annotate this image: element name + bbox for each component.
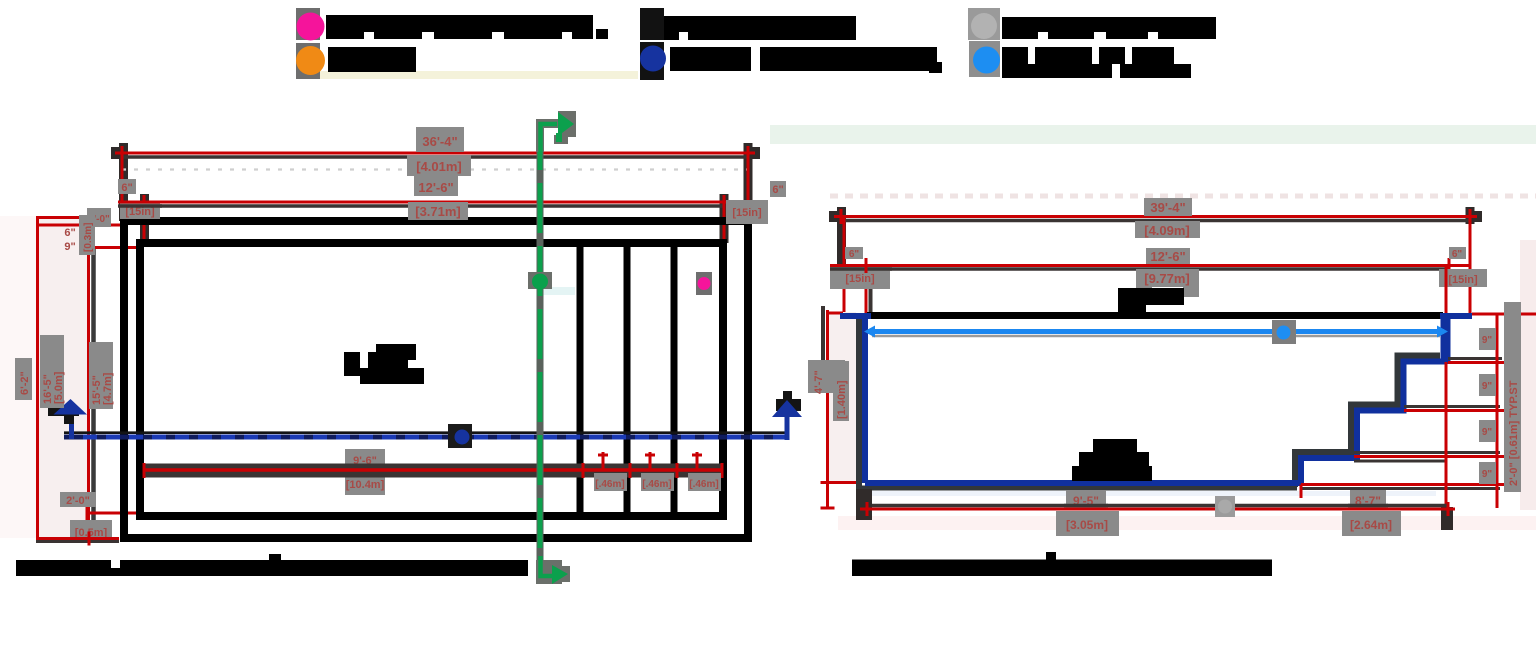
svg-text:4'-7": 4'-7" [813, 370, 825, 394]
section: dim line 1 black end bars [829, 207, 1482, 267]
svg-text:[.46m]: [.46m] [595, 479, 624, 490]
plan: pool inner wall rectangle [140, 243, 723, 516]
svg-text:6": 6" [121, 182, 132, 194]
plan: pipe right arrow (navy) [772, 400, 802, 417]
plan: section marker top (gray back) [536, 111, 576, 152]
plan: top center dim label 2 [407, 155, 471, 176]
plan: pink box red border left [36, 216, 39, 538]
plan: navy marker dot [455, 430, 470, 445]
plan: blue pipe black top line [64, 431, 786, 434]
section: red+black ext vertical left x=866 [869, 266, 873, 313]
svg-text:39'-4": 39'-4" [1150, 200, 1185, 215]
overpaint: dimension lines drawn across label boxes [68, 202, 1388, 546]
plan: section marker top (green) [541, 112, 575, 152]
section: deck level red line right [1472, 313, 1536, 316]
plan: green section line (green dashes) [538, 120, 543, 580]
section: gray marker square [1215, 496, 1235, 517]
section: left red bottom line [828, 481, 859, 484]
svg-text:[1.40m]: [1.40m] [836, 380, 848, 419]
legend swatch box 3 (black, col2 row1) [640, 8, 664, 40]
plan: left rotated label B [40, 335, 65, 408]
plan: dimension line 1 (top, dark shadow) [122, 155, 748, 159]
section: caption bar (redacted) [852, 552, 1272, 576]
legend dot: orange [296, 46, 325, 75]
plan: dimension line 2 (red) [144, 201, 724, 204]
plan: green dot [532, 274, 548, 290]
legend swatch box 5 (gray, col3 row1) [968, 8, 1000, 40]
plan: pink box red border right [87, 225, 90, 538]
plan: pink box red border bottom (with dark shadow) [36, 540, 119, 543]
legend swatch box 4 (black, behind navy dot) [640, 42, 664, 80]
section: waterline (light blue) [868, 329, 1444, 334]
section: dimension line 2 (dark shadow) [866, 267, 1449, 271]
legend text row1 col2 (redacted) [664, 16, 856, 40]
svg-text:9": 9" [64, 241, 75, 253]
plan: dark extension line (left of pool) [91, 247, 96, 540]
section: bottom dim line (dark) [867, 504, 1448, 508]
section: faint pink dash row above dim1 [830, 194, 1536, 199]
plan: dimension line 2 (dark shadow) [144, 204, 724, 208]
svg-text:9": 9" [1482, 335, 1493, 346]
plan: section marker bottom (green) [541, 556, 569, 584]
section: left rotated label [808, 360, 849, 421]
svg-text:[0.3m]: [0.3m] [83, 223, 94, 252]
plan: pool name label (redacted black) [344, 344, 424, 384]
plan: top left small label 6" [118, 179, 136, 194]
section: left crosses [821, 483, 835, 509]
legend swatch box 6 (gray, behind light-blue dot) [969, 41, 1000, 77]
plan: pipe right arrow (black back) [776, 391, 801, 411]
section: red vertical x=1446 (two segments, hidden behind beam) [1445, 265, 1448, 313]
plan: small red dim line y=513 [87, 512, 143, 515]
plan: pink box red border top [36, 216, 88, 219]
plan: lane line 1 [577, 247, 584, 512]
plan pink box bottom line across [0.5m] label [68, 540, 116, 543]
legend text row2 col1 (redacted) [328, 47, 416, 72]
section: waterline left arrow [864, 326, 875, 338]
section: left red dim vertical [826, 310, 829, 508]
svg-text:6": 6" [1452, 249, 1463, 260]
section: light blue dot [1277, 326, 1291, 340]
svg-text:[10.4m]: [10.4m] [346, 479, 385, 491]
svg-text:[9.77m]: [9.77m] [1144, 271, 1190, 286]
svg-text:9": 9" [1482, 427, 1493, 438]
svg-text:12'-6": 12'-6" [418, 180, 453, 195]
section: right rotated column label [1504, 302, 1521, 492]
section: top center label 3 [1146, 248, 1190, 264]
plan: pipe left riser [69, 414, 74, 439]
plan: pink dimension box fill [37, 216, 88, 538]
plan: green section line (gray base) [537, 120, 544, 580]
plan: interior dim crosses [144, 463, 722, 478]
svg-text:[4.7m]: [4.7m] [102, 372, 114, 405]
plan: top right label [15in] [726, 200, 768, 224]
svg-text:9": 9" [1482, 469, 1493, 480]
section: step dim lines right [1301, 359, 1502, 489]
section: left label 6" [845, 247, 863, 260]
section: right label [15in] [1439, 269, 1487, 287]
plan: small red dim line y=225 [36, 224, 122, 227]
section: left label [15in] [830, 265, 890, 289]
section: left dark ext line [821, 306, 825, 393]
plan dim2 across [15in] label [118, 204, 162, 208]
section: bottom dim crosses [860, 485, 1455, 517]
plan: green dot marker (gray back) [528, 272, 552, 289]
plan: interior dim label [345, 449, 385, 495]
svg-text:6": 6" [64, 227, 75, 239]
svg-text:[15in]: [15in] [732, 207, 762, 219]
section: bottom dim line (red) [867, 508, 1448, 511]
section: gray marker dot [1218, 500, 1232, 514]
section: deck top line [867, 312, 1443, 319]
plan: red extension vertical x=748 (dim1 to wall) [747, 153, 750, 221]
legend text row1 col3 (redacted) [1002, 17, 1216, 39]
plan: pool outer wall rectangle [124, 221, 748, 538]
plan: dim2 cross ticks [137, 195, 731, 209]
plan: pink dot marker (gray back) [696, 272, 712, 295]
plan: lane line 3 [671, 247, 678, 512]
svg-text:2'-0" [0.61m] TYP.ST: 2'-0" [0.61m] TYP.ST [1508, 380, 1520, 486]
plan: cross at (88,225) [87, 218, 90, 232]
section: deck label (redacted black) [1118, 288, 1184, 312]
section: red vertical x=1497 [1496, 314, 1499, 508]
section: red ext vertical right x=1470 [1469, 217, 1472, 317]
svg-text:[15in]: [15in] [845, 273, 875, 285]
section: bottom label right [1350, 490, 1386, 509]
svg-text:[.46m]: [.46m] [689, 479, 718, 490]
section: waterline gray shadow [872, 335, 1440, 338]
legend dot: gray [971, 13, 997, 39]
section: bottom dim end bars [856, 489, 1453, 530]
svg-text:[4.01m]: [4.01m] [416, 159, 462, 174]
section: bottom label left [1066, 490, 1106, 509]
plan: small lane tick dims [598, 452, 702, 470]
plan: top center dim label 4 [408, 202, 468, 220]
plan: blue pipe dashes [83, 435, 786, 440]
svg-text:36'-4": 36'-4" [422, 134, 457, 149]
section: dim2 crosses [859, 258, 1470, 273]
plan: dim1 cross ticks [115, 146, 755, 161]
plan: section marker bottom (gray back) [536, 560, 570, 584]
svg-text:[.46m]: [.46m] [642, 479, 671, 490]
plan: interior dimension line (red) [143, 468, 723, 472]
svg-text:[5.0m]: [5.0m] [53, 371, 65, 404]
plan: crosses on y=247.5 [87, 240, 122, 255]
svg-text:6'-2": 6'-2" [19, 371, 31, 395]
plan: pipe left arrow (navy) [54, 399, 88, 415]
plan: dim line 1 black end bars [111, 143, 760, 221]
plan: red extension vertical x=122 (dim1 to wall) [121, 153, 124, 247]
plan: small red dim line y=247.5 [87, 246, 144, 249]
svg-text:[15in]: [15in] [1448, 274, 1478, 286]
section: crosses right side [1490, 307, 1519, 492]
plan: dimension line 1 (top, red) [122, 152, 748, 155]
svg-text:12'-6": 12'-6" [1150, 249, 1185, 264]
section: left pink dim box [829, 312, 856, 484]
legend swatch box 2 (gray, behind orange dot) [296, 43, 320, 79]
section: pool shell black outline [856, 319, 1440, 488]
svg-text:[3.05m]: [3.05m] [1066, 518, 1108, 532]
plan: top left label [15in] [120, 203, 160, 219]
section bottom dim across 9'-5" label [1064, 504, 1108, 508]
section: top center label 2 [1135, 221, 1200, 238]
plan: pink dot [698, 277, 711, 290]
section: waterline right arrow [1437, 326, 1448, 338]
plan: pipe left arrow (black back) [48, 408, 79, 416]
section: red ext vertical left x=844 [843, 217, 846, 314]
svg-text:9": 9" [1482, 381, 1493, 392]
plan: lane line 2 [624, 247, 631, 512]
section dim2 across left [15in] label [830, 267, 892, 271]
plan: interior dimension line (dark halo) [143, 464, 723, 478]
section: top center label 4 [1136, 269, 1199, 297]
svg-text:[2.64m]: [2.64m] [1350, 518, 1392, 532]
section: right label 6" [1449, 247, 1466, 260]
plan: top center dim label 1 [416, 127, 464, 152]
legend text row2 col2 (redacted) [670, 47, 942, 73]
svg-text:[15in]: [15in] [125, 206, 155, 218]
plan: pipe right riser [785, 415, 790, 440]
section bottom dim across 8'-7" label [1348, 504, 1388, 508]
section: left red top stub [828, 312, 844, 315]
legend text row1 col1 (redacted) [326, 15, 608, 39]
section: floor label mound (redacted black) [1072, 439, 1152, 481]
section: light blue dot marker (gray back) [1272, 320, 1296, 344]
svg-text:6": 6" [849, 249, 860, 260]
section: pool shell navy outline [840, 313, 1472, 486]
svg-text:2'-0": 2'-0" [66, 495, 90, 507]
plan interior dim across label [343, 464, 387, 478]
plan: bottom left labels [60, 492, 96, 507]
legend dot: navy [640, 46, 666, 72]
plan: blue pipe dashed run (dark base) [64, 435, 786, 440]
legend dot: pink [297, 13, 325, 41]
section: step small labels [1479, 328, 1496, 350]
section: dimension line 1 (dark shadow) [841, 219, 1470, 223]
plan: left corner small labels [87, 208, 111, 227]
plan: red extension vertical x=144 (dim2 to wall) [143, 202, 146, 247]
legend dot: light blue [973, 47, 1000, 74]
plan: lane dim labels [594, 473, 627, 491]
plan: left rotated label C [89, 342, 114, 409]
section: dimension line 1 (red) [841, 215, 1470, 218]
section: top center label 1 [1144, 198, 1192, 216]
plan: left rotated label A [15, 358, 32, 400]
plan: crosses on y=513 [87, 506, 122, 520]
plan: dim line 2 black end bars [140, 194, 729, 243]
plan: red extension vertical x=724 (dim2 down) [723, 202, 726, 247]
section: dimension line 2 (red) [866, 264, 1470, 267]
svg-text:6": 6" [772, 184, 783, 196]
svg-text:[3.71m]: [3.71m] [415, 204, 461, 219]
legend swatch box 1 (gray, behind pink dot) [296, 8, 320, 40]
plan: top center dim label 3 [414, 176, 458, 196]
legend text row2 col3 (redacted, two lines) [1002, 47, 1191, 78]
plan: faint gray dashed line below dim1 [122, 168, 748, 170]
plan: navy marker square on pipe [448, 424, 472, 448]
plan: top right small label 6" [770, 181, 786, 197]
plan: caption bar (redacted) [16, 554, 528, 576]
section: dim1 crosses [834, 209, 1477, 224]
svg-text:[4.09m]: [4.09m] [1144, 223, 1190, 238]
